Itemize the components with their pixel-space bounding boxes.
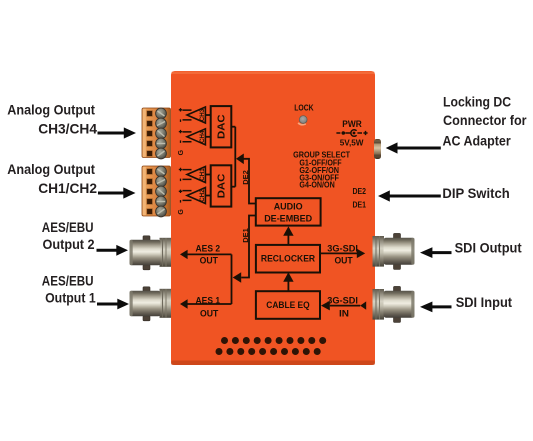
DAC U1 box: [211, 106, 232, 147]
BNC connector AES/EBU Output 2 (left upper): [130, 236, 172, 270]
BNC connector AES/EBU Output 1 (left lower): [130, 287, 172, 321]
arrow to BNC out1: [97, 303, 118, 306]
svg-text:DAC: DAC: [216, 114, 228, 139]
arrowhead DE1 into AES bus: [233, 272, 242, 283]
RECLOCKER box U4: [256, 245, 320, 273]
BNC connector SDI Input (right lower): [373, 286, 415, 322]
wire AES 2 out: [187, 253, 231, 255]
arrowhead AES 2 out: [180, 250, 188, 259]
wire CH1 to DAC2: [205, 174, 210, 176]
arrow to DIP area: [389, 195, 441, 198]
arrow to BNC out2: [97, 249, 118, 252]
svg-text:AES 1: AES 1: [196, 295, 221, 306]
wire AES 1 out: [187, 303, 231, 305]
svg-text:DE2: DE2: [241, 170, 250, 185]
BNC connector SDI Output (right upper): [373, 233, 415, 269]
outer labels: [7, 94, 527, 310]
svg-text:CH1: CH1: [199, 168, 206, 181]
svg-text:Output 2: Output 2: [43, 236, 95, 252]
svg-text:AES/EBU: AES/EBU: [42, 219, 94, 235]
wire CH2 to DAC2: [205, 195, 210, 197]
wire AES bus vertical: [231, 254, 233, 304]
op-amp CH4 input wires: [183, 132, 192, 142]
CABLE EQ box U5: [256, 291, 320, 319]
svg-text:AUDIO: AUDIO: [274, 201, 303, 212]
op-amp CH3: [187, 107, 205, 123]
terminal block TB2 (CH1/CH2): [142, 166, 171, 217]
arrowhead to SDI out: [420, 247, 432, 258]
arrowhead into RECLOCKER: [283, 272, 293, 281]
wire RECLOCKER to AUDIO DE-EMBED: [287, 236, 289, 245]
terminal polarity symbols group 2: [179, 168, 182, 203]
svg-text:IN: IN: [339, 309, 349, 320]
wire DAC1 output stub: [231, 126, 235, 128]
arrow to SDI out BNC: [432, 251, 452, 254]
wire CABLE EQ to RECLOCKER: [287, 282, 289, 292]
op-amp CH1 input wires: [183, 170, 192, 180]
arrowhead to DIP: [378, 190, 390, 201]
svg-text:DIP Switch: DIP Switch: [442, 185, 509, 201]
svg-text:LOCK: LOCK: [294, 103, 314, 112]
wire DAC bus vertical: [234, 127, 236, 187]
wire CH4 to DAC1: [205, 136, 210, 138]
wire DE1 feed: [241, 216, 256, 278]
arrowhead 3G-SDI OUT: [357, 249, 365, 258]
callout arrows: [97, 133, 452, 307]
svg-text:DE-EMBED: DE-EMBED: [264, 213, 312, 224]
device body: [171, 71, 375, 365]
op-amp CH2: [187, 188, 205, 204]
arrowhead 3G-SDI IN at edge: [360, 301, 366, 309]
DC power jack (right edge): [374, 139, 381, 159]
svg-text:AES/EBU: AES/EBU: [42, 273, 94, 289]
svg-text:DE2: DE2: [353, 187, 367, 196]
op-amp CH4: [187, 129, 205, 145]
svg-text:Analog Output: Analog Output: [7, 161, 95, 177]
DC polarity symbol: [336, 130, 367, 137]
arrow to SDI in BNC: [432, 305, 452, 308]
svg-text:CH4: CH4: [199, 130, 206, 143]
op-amp CH1: [187, 167, 205, 183]
wire 3G-SDI IN: [330, 305, 360, 307]
device text: [196, 103, 367, 319]
schematic printed on device: [183, 106, 361, 319]
svg-text:3G-SDI: 3G-SDI: [327, 243, 358, 254]
svg-text:OUT: OUT: [334, 256, 352, 267]
wire DE2 feed: [243, 159, 255, 204]
svg-text:SDI Output: SDI Output: [455, 239, 522, 255]
arrowhead to TB2: [123, 187, 135, 198]
arrowhead to BNC out2: [116, 245, 128, 256]
svg-text:AC Adapter: AC Adapter: [443, 132, 512, 148]
wire CH3 to DAC1: [205, 114, 210, 116]
arrow to TB1: [98, 132, 125, 135]
svg-text:Output 1: Output 1: [45, 290, 96, 306]
svg-text:5V,5W: 5V,5W: [340, 139, 364, 148]
svg-text:CH1/CH2: CH1/CH2: [38, 180, 97, 196]
svg-text:CH3/CH4: CH3/CH4: [38, 120, 97, 136]
svg-text:AES 2: AES 2: [196, 243, 221, 254]
svg-text:Analog Output: Analog Output: [7, 101, 95, 117]
arrowhead to DC jack: [386, 142, 398, 153]
svg-text:PWR: PWR: [342, 119, 362, 129]
svg-text:Connector for: Connector for: [443, 112, 527, 128]
svg-text:CH2: CH2: [199, 189, 206, 202]
arrowhead into AUDIO DE-EMBED: [283, 226, 293, 235]
arrowhead to TB1: [124, 127, 136, 138]
svg-text:CH3: CH3: [199, 108, 206, 121]
op-amp CH3 input wires: [183, 110, 192, 120]
arrowhead 3G-SDI IN at CABLE EQ: [321, 301, 330, 311]
svg-text:G4-ON/ON: G4-ON/ON: [299, 181, 334, 190]
svg-text:Locking DC: Locking DC: [443, 94, 511, 110]
svg-text:DAC: DAC: [216, 173, 228, 198]
arrow to DC jack: [397, 147, 441, 150]
arrowhead to BNC out1: [117, 299, 129, 310]
arrowhead to SDI in: [420, 302, 432, 313]
svg-text:DE1: DE1: [353, 201, 367, 210]
DAC U2 box: [211, 165, 232, 206]
arrow to TB2: [98, 192, 124, 195]
svg-text:SDI Input: SDI Input: [456, 294, 513, 310]
arrowhead DE2 into DAC bus: [236, 154, 244, 165]
vent holes row 2: [216, 348, 321, 355]
wire 3G-SDI OUT: [320, 252, 357, 254]
svg-text:DE1: DE1: [241, 228, 250, 243]
svg-text:G: G: [178, 149, 185, 155]
svg-text:3G-SDI: 3G-SDI: [327, 296, 358, 307]
svg-text:RECLOCKER: RECLOCKER: [261, 254, 315, 265]
wire DAC2 output stub: [231, 186, 235, 188]
svg-text:OUT: OUT: [200, 256, 218, 267]
arrowhead AES 1 out: [180, 299, 188, 308]
svg-text:CABLE EQ: CABLE EQ: [266, 300, 310, 311]
LED lock indicator: [298, 116, 307, 125]
terminal block TB1 (CH3/CH4): [142, 108, 171, 159]
svg-text:OUT: OUT: [200, 309, 218, 320]
svg-text:G: G: [178, 209, 185, 215]
AUDIO DE-EMBED box U3: [256, 198, 321, 225]
terminal polarity symbols group 1: [179, 108, 182, 143]
op-amp CH2 input wires: [183, 191, 192, 201]
vent holes row 1: [221, 337, 326, 344]
